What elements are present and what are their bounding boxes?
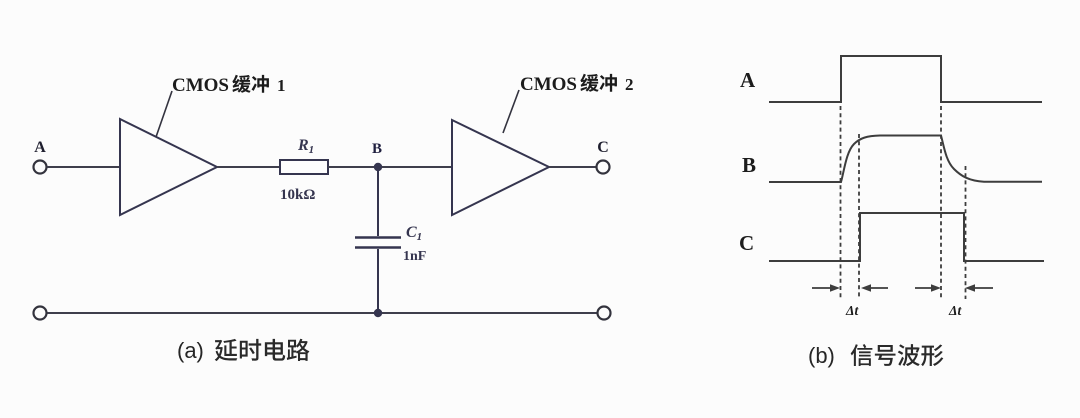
waveform B trace — [769, 136, 1042, 183]
junction dot node B — [374, 163, 382, 171]
wire: terminal A to buffer 1 input — [47, 166, 121, 168]
dashed timing line at C rise — [858, 134, 860, 299]
svg-text:B: B — [742, 153, 756, 177]
svg-text:B: B — [372, 141, 382, 157]
caption (a) 延时电路 — [177, 338, 309, 363]
bottom rail wire — [47, 312, 598, 314]
dashed timing line at A fall — [940, 106, 942, 299]
svg-text:A: A — [740, 68, 756, 92]
bottom right terminal — [598, 307, 611, 320]
wire: resistor R1 to buffer 2 input through node B — [328, 166, 452, 168]
bottom left terminal — [34, 307, 47, 320]
op-amp buffer U1 (CMOS buffer 1) — [120, 119, 217, 215]
junction dot on bottom rail — [374, 309, 382, 317]
svg-text:C: C — [597, 139, 609, 156]
svg-text:(a): (a) — [177, 338, 204, 363]
label: CMOS 缓冲 2 — [520, 74, 634, 95]
waveform A trace — [769, 56, 1042, 102]
capacitor C1 — [355, 167, 401, 313]
svg-text:10kΩ: 10kΩ — [280, 187, 315, 203]
svg-text:CMOS: CMOS — [520, 74, 577, 95]
leader line from label to buffer 2 — [503, 90, 519, 133]
svg-text:Δt: Δt — [845, 303, 859, 318]
svg-text:C: C — [739, 231, 754, 255]
svg-text:(b): (b) — [808, 343, 835, 368]
caption (b) 信号波形 — [808, 343, 943, 368]
svg-text:Δt: Δt — [948, 303, 962, 318]
resistor R1 body — [280, 160, 328, 174]
input terminal A — [34, 161, 47, 174]
delay marker arrows (right pair) — [915, 284, 993, 292]
svg-text:1nF: 1nF — [403, 249, 426, 264]
dashed timing line at C fall — [965, 166, 967, 299]
dashed timing line at A rise — [840, 106, 842, 299]
op-amp buffer U2 (CMOS buffer 2) — [452, 120, 549, 215]
output terminal C — [597, 161, 610, 174]
svg-text:1: 1 — [277, 76, 286, 95]
label: CMOS 缓冲 1 — [172, 75, 286, 96]
svg-text:2: 2 — [625, 75, 634, 94]
svg-text:CMOS: CMOS — [172, 75, 229, 96]
delay marker arrows (left pair) — [812, 284, 888, 292]
wire: buffer 1 output to resistor R1 — [217, 166, 280, 168]
svg-text:R1: R1 — [297, 137, 314, 156]
svg-text:A: A — [34, 139, 46, 156]
wire: buffer 2 output to terminal C — [549, 166, 597, 168]
waveform C trace — [769, 213, 1044, 261]
leader line from label to buffer 1 — [156, 91, 172, 137]
svg-text:C1: C1 — [406, 224, 422, 243]
